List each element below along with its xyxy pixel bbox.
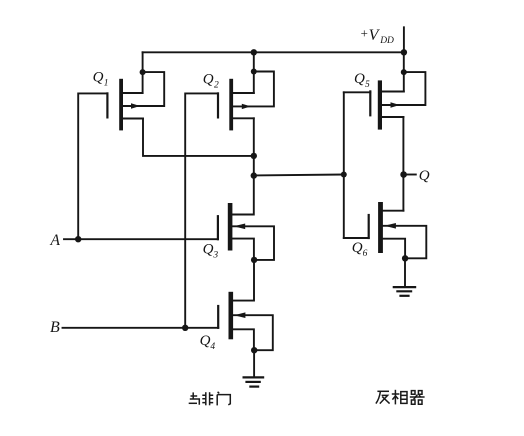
wire Q3 source to Q4 drain bbox=[233, 260, 254, 301]
char qi bbox=[411, 391, 415, 395]
transistor Q4 (NMOS) bbox=[218, 292, 273, 350]
transistor Q3 (NMOS) bbox=[218, 203, 274, 260]
transistor Q1 (PMOS) bbox=[107, 72, 164, 130]
char xiang bbox=[394, 390, 396, 405]
wire NAND output to inverter input bbox=[254, 174, 344, 177]
ground under Q6 bbox=[394, 287, 415, 296]
transistor Q2 (PMOS) bbox=[218, 72, 274, 131]
wire VDD down to Q5 drain bbox=[403, 52, 405, 91]
node Q4 source junction bbox=[251, 347, 257, 353]
node inverter input junction bbox=[341, 172, 347, 178]
power rail +VDD wire bbox=[143, 51, 405, 53]
node Q3 source junction bbox=[251, 257, 257, 263]
svg-text:DD: DD bbox=[379, 36, 394, 46]
svg-text:Q: Q bbox=[203, 242, 214, 258]
svg-text:+: + bbox=[360, 25, 369, 40]
svg-text:B: B bbox=[50, 319, 60, 336]
svg-text:Q: Q bbox=[93, 69, 104, 85]
wire Q5 gate lead bbox=[344, 91, 371, 93]
label NAND gate (Chinese) bbox=[189, 392, 231, 406]
svg-text:2: 2 bbox=[214, 81, 219, 91]
wire Q1 source down and across to Q2 source node bbox=[143, 119, 254, 156]
transistor Q5 (PMOS) bbox=[370, 72, 425, 130]
wire Q1 gate lead and vertical to input A bbox=[78, 93, 107, 239]
char men bbox=[216, 395, 218, 406]
label +VDD bbox=[360, 25, 394, 45]
svg-text:A: A bbox=[50, 232, 61, 249]
node output Q bbox=[400, 171, 407, 178]
wire output Q dash bbox=[404, 174, 416, 176]
wire NAND output column Q2 source to Q3 drain bbox=[232, 118, 253, 214]
wire inverter gate vertical bbox=[343, 92, 345, 238]
node rail-VDD junction bbox=[401, 49, 407, 55]
svg-text:Q: Q bbox=[419, 168, 430, 184]
svg-text:4: 4 bbox=[210, 342, 215, 352]
node Q1 body tap bbox=[140, 69, 146, 75]
node Q6 source junction bbox=[402, 255, 408, 261]
input A wire bbox=[64, 238, 218, 240]
svg-text:Q: Q bbox=[200, 333, 211, 349]
svg-text:Q: Q bbox=[352, 240, 363, 256]
svg-text:V: V bbox=[369, 27, 381, 44]
svg-text:6: 6 bbox=[363, 249, 368, 259]
char fei bbox=[205, 392, 207, 405]
wire Q1 drain to rail bbox=[142, 52, 144, 93]
wire VDD stub above rail bbox=[403, 27, 405, 52]
ground under Q4 bbox=[244, 377, 264, 386]
node A junction bbox=[75, 236, 81, 242]
svg-text:Q: Q bbox=[354, 71, 365, 87]
svg-text:Q: Q bbox=[203, 72, 214, 88]
wire Q6 gate lead bbox=[344, 237, 369, 239]
input B wire bbox=[63, 327, 219, 329]
node output branch junction bbox=[251, 172, 257, 178]
wire Q2 gate lead and vertical to input B bbox=[185, 93, 218, 327]
svg-text:3: 3 bbox=[212, 251, 218, 261]
transistor Q6 (NMOS) bbox=[369, 202, 427, 258]
wire Q4 source to ground bbox=[253, 350, 255, 376]
wire Q5 source down through output to Q6 drain bbox=[402, 117, 404, 211]
node Q2 body tap bbox=[251, 69, 257, 75]
char yu bbox=[191, 395, 198, 397]
label inverter (Chinese) bbox=[376, 390, 425, 405]
node B junction bbox=[182, 325, 188, 331]
svg-text:5: 5 bbox=[365, 80, 370, 90]
wire rail down to Q2 drain bbox=[253, 52, 255, 93]
wire Q6 source to ground bbox=[404, 258, 406, 286]
char fan bbox=[377, 390, 389, 392]
node rail-Q2 junction bbox=[251, 49, 257, 55]
node Q5 body tap on VDD bbox=[401, 69, 407, 75]
node Q1/Q2 source junction bbox=[251, 153, 257, 159]
svg-text:1: 1 bbox=[104, 78, 109, 88]
